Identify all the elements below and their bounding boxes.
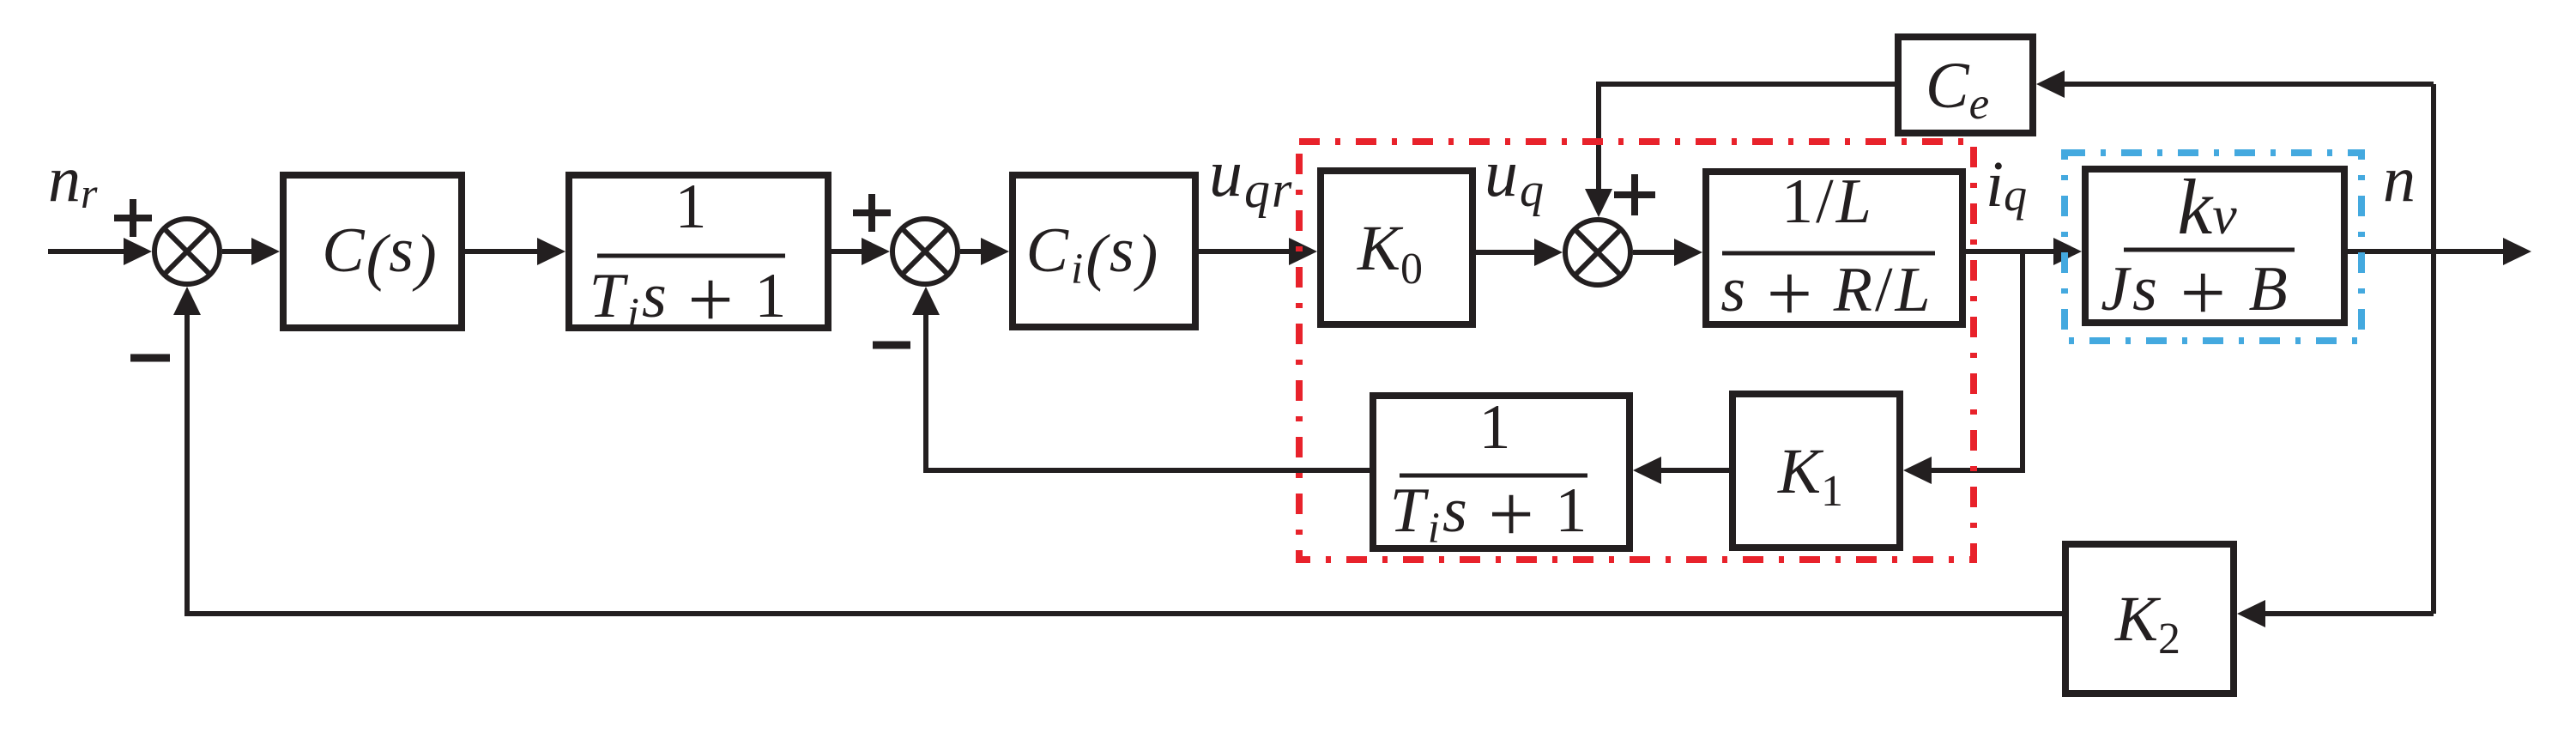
svg-text:1: 1 — [675, 172, 707, 242]
svg-text:n: n — [2383, 143, 2416, 215]
svg-text:1/L: 1/L — [1781, 167, 1874, 237]
svg-text:Ci(s): Ci(s) — [1026, 215, 1161, 294]
svg-text:1: 1 — [1479, 392, 1511, 463]
svg-text:C(s): C(s) — [322, 215, 438, 293]
